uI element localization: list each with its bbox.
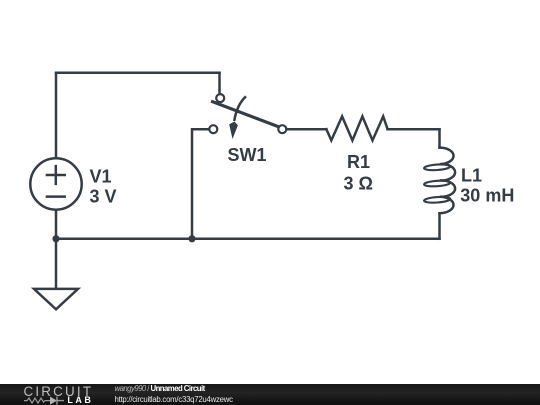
- voltage source V1: [30, 158, 81, 209]
- svg-text:3 Ω: 3 Ω: [344, 174, 373, 194]
- svg-text:SW1: SW1: [228, 145, 267, 165]
- footer line 1: [115, 384, 205, 393]
- wire SW1 lower-left drop: [192, 129, 209, 239]
- svg-text:V1: V1: [90, 166, 112, 186]
- footer logo squiggle: [24, 394, 70, 405]
- svg-text:L1: L1: [461, 165, 482, 185]
- footer logo CIRCUIT: [24, 384, 94, 399]
- wire drop to SW1 top terminal: [218, 73, 221, 94]
- wire top horizontal: [56, 72, 220, 75]
- wire R1 to L1: [388, 128, 440, 131]
- wire SW1 to R1: [287, 128, 327, 131]
- resistor R1: [326, 116, 387, 140]
- wire left vertical to V1: [55, 73, 58, 159]
- switch SW1: [209, 94, 286, 139]
- ground: [34, 289, 78, 309]
- node junction SW1 drop: [188, 235, 195, 242]
- wire V1 bottom to ground: [55, 210, 58, 289]
- node junction V1 bottom: [52, 235, 59, 242]
- wire bottom horizontal: [56, 238, 440, 241]
- svg-text:R1: R1: [347, 152, 370, 172]
- svg-text:3 V: 3 V: [90, 187, 117, 207]
- footer bar: [0, 384, 540, 405]
- footer logo LAB: [67, 395, 93, 405]
- inductor L1: [424, 129, 455, 239]
- svg-text:30 mH: 30 mH: [460, 186, 514, 206]
- footer line 2: [115, 395, 233, 404]
